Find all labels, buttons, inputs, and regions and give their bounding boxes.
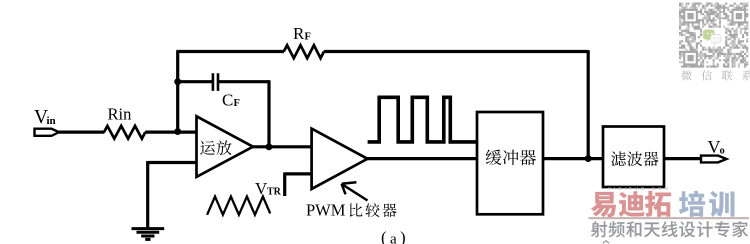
wire buffer to filter	[543, 157, 603, 160]
junction dot feedback node B	[585, 155, 592, 162]
arrow pointing to PWM comparator	[342, 182, 368, 200]
watermark 培训	[679, 191, 735, 217]
watermark tiled next row hint	[603, 241, 609, 243]
watermark 射频和天线设计专家	[591, 221, 748, 237]
wire capacitor branch left	[178, 80, 213, 83]
input terminal Vin	[35, 129, 60, 136]
watermark underline	[589, 217, 750, 219]
junction dot capacitor branch	[174, 78, 181, 85]
wire op-amp output	[252, 145, 313, 148]
svg-text:Rin: Rin	[108, 105, 132, 124]
buffer label 缓冲器	[486, 150, 536, 166]
svg-text:F: F	[234, 98, 240, 109]
QR center WeChat icon	[703, 30, 721, 45]
svg-text:R: R	[293, 24, 305, 43]
junction dot op-amp output	[265, 143, 272, 150]
wire to ground	[146, 161, 149, 228]
svg-text:F: F	[305, 32, 311, 43]
wire feedback drop to output node	[587, 50, 590, 159]
svg-text:(: (	[381, 228, 387, 244]
svg-text:TR: TR	[267, 187, 282, 198]
output terminal Vo	[701, 156, 727, 163]
capacitor CF plates	[213, 73, 218, 91]
svg-text:in: in	[47, 115, 56, 127]
QR caption 微信联系	[681, 70, 750, 80]
filter box 滤波器	[603, 127, 664, 188]
wire capacitor branch right	[218, 80, 269, 83]
QR code watermark	[679, 3, 748, 68]
wire Rin to op-amp input node	[145, 131, 198, 134]
filter label 滤波器	[611, 151, 658, 166]
op-amp U1	[197, 116, 254, 177]
label 比较器 glyphs	[350, 203, 397, 217]
node A junction dot	[174, 128, 181, 135]
wire PWM output to buffer	[366, 157, 477, 160]
watermark 易迪拓	[591, 191, 671, 217]
svg-text:PWM: PWM	[306, 201, 346, 220]
wire top feedback left	[176, 50, 284, 53]
ground	[132, 229, 165, 240]
wire filter to output	[664, 157, 702, 160]
buffer box 缓冲器	[477, 112, 543, 214]
resistor Rin	[104, 126, 145, 139]
svg-text:): )	[400, 228, 406, 244]
wire feedback riser at node A	[176, 52, 179, 133]
op-amp label 运放	[200, 140, 231, 155]
sawtooth waveform	[207, 197, 270, 215]
wire VTR input	[285, 173, 312, 197]
svg-text:a: a	[390, 232, 397, 244]
PWM comparator U2	[312, 129, 368, 189]
svg-text:Y I D I T U O . C O M: Y I D I T U O . C O M	[608, 186, 669, 191]
svg-text:o: o	[720, 145, 725, 156]
svg-text:C: C	[222, 91, 233, 110]
wire input to Rin	[59, 131, 105, 134]
resistor RF	[284, 45, 324, 58]
square wave annotation	[368, 97, 477, 142]
wire top feedback right	[324, 50, 588, 53]
wire op-amp lower input	[148, 161, 198, 164]
wire capacitor drop to op-amp output	[267, 80, 270, 147]
